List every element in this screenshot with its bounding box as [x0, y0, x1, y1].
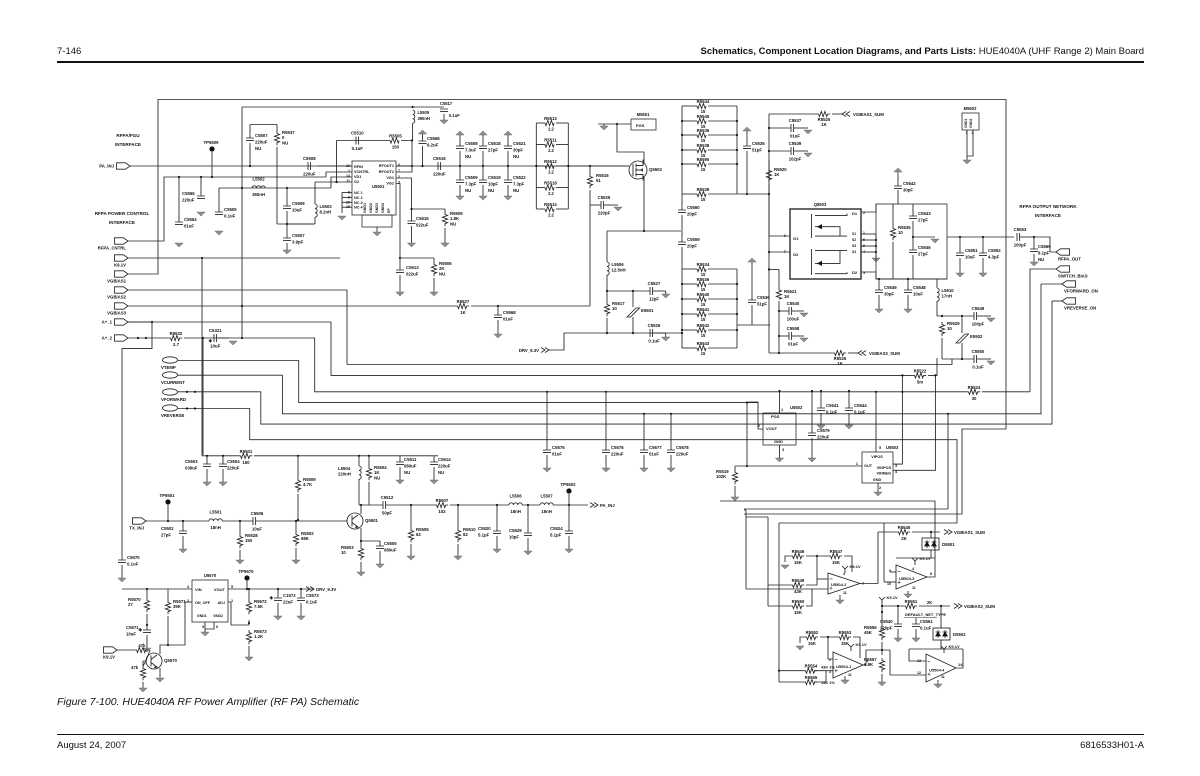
- wire R5505b dn: [410, 544, 412, 556]
- svg-text:39K: 39K: [173, 604, 182, 609]
- wire C5507 top link: [250, 124, 277, 126]
- svg-text:4.7K: 4.7K: [303, 482, 313, 487]
- svg-text:01uF: 01uF: [184, 224, 194, 229]
- wire r5551 in: [882, 605, 903, 607]
- resistor R5505 150: [390, 138, 399, 143]
- junction y177 b: [200, 176, 202, 178]
- svg-text:C5570: C5570: [127, 555, 140, 560]
- wire TX in: [146, 520, 209, 522]
- wire RFOUT2 route: [396, 166, 412, 172]
- wire R5503 dn: [360, 562, 362, 572]
- op-amp U5504-1: [833, 652, 863, 678]
- bundle 509: [744, 508, 948, 510]
- wire C5551 stem: [959, 237, 961, 253]
- junction y177 a: [178, 176, 180, 178]
- resistor R5501 150: [238, 453, 252, 458]
- junction C5569 tap: [1033, 236, 1035, 238]
- capacitor C5571 10uF: [139, 628, 151, 633]
- svg-text:1K: 1K: [774, 172, 780, 177]
- svg-text:VGBIAS1_SUM: VGBIAS1_SUM: [853, 112, 884, 117]
- connector VGBIAS1: [115, 271, 129, 277]
- resistor R5551 2K: [903, 603, 917, 608]
- svg-text:150: 150: [242, 460, 250, 465]
- svg-text:220uF: 220uF: [255, 140, 268, 145]
- resistor R5510 62: [455, 528, 460, 542]
- svg-text:GND1: GND1: [197, 614, 207, 618]
- svg-text:C5321: C5321: [209, 328, 222, 333]
- ground C5554: [175, 243, 183, 247]
- capacitor C5503 039uF: [203, 464, 211, 467]
- junction tp5570: [246, 588, 248, 590]
- wire L5506 feed: [606, 231, 608, 262]
- wire r5574 out: [146, 650, 150, 661]
- svg-text:U5504-4: U5504-4: [929, 667, 945, 672]
- wire C5544 stem: [848, 391, 850, 408]
- resistor R5503 10: [358, 546, 363, 560]
- wire R5518 lead l: [536, 187, 545, 189]
- ground C5527: [662, 294, 670, 298]
- wire d5502 dn: [940, 640, 942, 649]
- wire C5539 lead: [769, 150, 791, 152]
- wire d5501 stem: [930, 532, 932, 538]
- wire C5540 gnd lead: [792, 310, 804, 312]
- wire VGBIAS2 feed: [768, 252, 770, 353]
- ground R5573: [245, 657, 253, 661]
- svg-text:RFPA OUTPUT NETWORK: RFPA OUTPUT NETWORK: [1019, 204, 1077, 209]
- svg-text:220uF: 220uF: [303, 172, 316, 177]
- wire R5544 lead r: [708, 105, 737, 107]
- svg-text:L5510: L5510: [942, 288, 955, 293]
- wire C5550 gnd lead: [977, 358, 991, 360]
- resistor R5504 1K NU: [366, 466, 371, 480]
- wire R5525 out: [832, 113, 842, 115]
- capacitor C5510 0.1uF: [356, 137, 359, 145]
- wire R5521 dn: [778, 301, 780, 353]
- junction rail r5504: [368, 455, 370, 457]
- capacitor C5546 27pF: [909, 250, 917, 253]
- wire C5551 dn: [959, 258, 961, 273]
- svg-text:GND2: GND2: [969, 118, 973, 128]
- power K9.1V e: [941, 646, 947, 653]
- svg-text:GND4: GND4: [381, 203, 385, 213]
- resistor R5511 2.2: [545, 142, 554, 147]
- svg-text:PA_INJ: PA_INJ: [600, 503, 615, 508]
- svg-text:2.2: 2.2: [548, 213, 554, 218]
- wire TP5509 stem: [211, 152, 213, 177]
- svg-text:390nH: 390nH: [418, 116, 430, 121]
- svg-text:R5551: R5551: [905, 599, 918, 604]
- resistor R5570 27: [144, 598, 149, 612]
- svg-text:RFIN: RFIN: [354, 165, 363, 169]
- header rule: [57, 61, 1144, 63]
- power K9.1V d: [848, 644, 854, 651]
- svg-text:C5560: C5560: [687, 205, 700, 210]
- wire M5501 left: [598, 123, 631, 125]
- power K9.1V b: [912, 558, 918, 565]
- svg-text:U5504-3: U5504-3: [899, 576, 915, 581]
- junction S4: [875, 251, 877, 253]
- wire C5578 dn: [670, 455, 672, 468]
- ground C5548: [904, 309, 912, 313]
- svg-text:C5516: C5516: [433, 156, 446, 161]
- svg-text:C5513: C5513: [406, 265, 419, 270]
- svg-text:NC 1: NC 1: [354, 191, 363, 195]
- svg-text:VOUT: VOUT: [766, 426, 778, 431]
- svg-text:L5501: L5501: [210, 510, 223, 515]
- capacitor C5552 4.3pF: [979, 253, 987, 256]
- wire R5507 out: [450, 504, 509, 506]
- wire r5555 in: [779, 681, 803, 683]
- ground R5510: [454, 556, 462, 560]
- capacitor C5540b 220pF: [894, 624, 902, 627]
- svg-text:R5540: R5540: [697, 292, 710, 297]
- svg-text:M5502: M5502: [964, 106, 977, 111]
- wire C5507 top lead: [249, 125, 251, 139]
- wire VG2 route: [396, 184, 400, 259]
- wire C5571 dn: [146, 635, 148, 648]
- wire U5570 gnd1: [204, 622, 206, 632]
- wire r5552-r5553: [820, 636, 837, 638]
- svg-text:12: 12: [917, 671, 921, 675]
- wire R5570 top: [146, 589, 148, 598]
- capacitor C5541 0.1uF: [817, 408, 825, 411]
- svg-text:15K: 15K: [794, 610, 803, 615]
- svg-text:L5505: L5505: [418, 110, 430, 115]
- svg-text:6: 6: [784, 234, 786, 238]
- wire e5502 top row: [937, 315, 974, 317]
- svg-text:C5529: C5529: [509, 528, 522, 533]
- capacitor C5568b 6.2uF: [419, 141, 427, 144]
- wire r5553 out: [853, 637, 860, 658]
- wire C5526 gnd lead: [653, 332, 666, 334]
- wire K9.1V horizontal: [128, 257, 340, 259]
- wire R5505b stem: [410, 505, 412, 528]
- capacitor C5558 01uF: [789, 332, 792, 340]
- wire R5522 out: [928, 358, 937, 375]
- svg-text:NU: NU: [465, 188, 471, 193]
- ground Q5570: [156, 678, 164, 682]
- ground C5576: [602, 468, 610, 472]
- resistor R5522 5m: [912, 373, 926, 378]
- svg-text:43K 1%: 43K 1%: [821, 665, 835, 670]
- svg-text:C5522: C5522: [513, 175, 526, 180]
- svg-text:VFORWARD: VFORWARD: [161, 397, 186, 402]
- transistor Q5503 module: [790, 209, 861, 279]
- capacitor C5559 20pF: [678, 242, 686, 245]
- junction vin tap: [146, 588, 148, 590]
- connector VREVERSE: [163, 405, 178, 411]
- junction r5556 top: [881, 611, 883, 613]
- resistor R5532 2.7: [168, 335, 182, 340]
- resistor R5542 15: [697, 327, 706, 332]
- svg-text:GND1: GND1: [964, 118, 968, 128]
- junction r5528: [239, 520, 241, 522]
- wire C5570 dn: [121, 565, 123, 578]
- svg-text:C5526: C5526: [648, 323, 661, 328]
- wire mid gnd: [913, 236, 935, 238]
- svg-text:15: 15: [701, 167, 706, 172]
- capacitor C5526 0.1uF: [650, 329, 653, 337]
- wire R5570 dn: [146, 614, 148, 625]
- wire stack2 right rail: [736, 269, 738, 348]
- svg-text:2: 2: [829, 658, 831, 662]
- connector VTEMP: [163, 357, 178, 363]
- svg-text:DRV_9.3V: DRV_9.3V: [519, 348, 539, 353]
- wire adj link: [228, 602, 249, 625]
- wire u1 plus: [779, 670, 803, 672]
- svg-text:R5513: R5513: [544, 116, 557, 121]
- wire L5501 out: [222, 520, 253, 522]
- connector TX_INJ: [133, 518, 147, 524]
- wire C5575 dn: [546, 455, 548, 468]
- svg-text:C5512: C5512: [381, 495, 394, 500]
- capacitor C5542 30pF: [894, 186, 902, 189]
- wire C5553 out: [1020, 236, 1034, 238]
- wire A+_1 stub: [128, 321, 152, 323]
- junction C5568 top: [497, 305, 499, 307]
- diode D5502: [933, 628, 950, 640]
- svg-text:R5552: R5552: [806, 630, 819, 635]
- svg-text:220uF: 220uF: [227, 466, 240, 471]
- capacitor C5543 27pF: [909, 216, 917, 219]
- wire L5505 bottom: [412, 123, 414, 140]
- bundle 517: [746, 516, 768, 518]
- svg-text:NU: NU: [465, 154, 471, 159]
- svg-text:10uF: 10uF: [913, 292, 923, 297]
- wire R5539 lead l: [682, 193, 697, 195]
- svg-text:C5504: C5504: [227, 459, 240, 464]
- svg-text:C5542: C5542: [903, 181, 916, 186]
- junction x242 vg3: [241, 305, 243, 307]
- wire C5542 stem dn: [897, 190, 899, 204]
- svg-text:C5535: C5535: [752, 141, 765, 146]
- wire u2 plus: [746, 588, 828, 590]
- svg-text:NU: NU: [1038, 257, 1044, 262]
- svg-text:6.2uF: 6.2uF: [427, 143, 439, 148]
- ground R5502: [292, 560, 300, 564]
- svg-text:220nH: 220nH: [338, 472, 351, 477]
- ground C5522: [504, 196, 512, 200]
- resistor R5573 1.2K: [246, 630, 251, 644]
- svg-text:62: 62: [463, 532, 468, 537]
- svg-text:S2: S2: [852, 238, 856, 242]
- svg-text:GND2: GND2: [213, 614, 223, 618]
- svg-text:C5576: C5576: [611, 445, 624, 450]
- footer part number: [1080, 740, 1144, 751]
- capacitor C5520 5.1pF: [493, 531, 501, 534]
- svg-text:TP5502: TP5502: [560, 482, 576, 487]
- resistor R5554 43K: [803, 668, 817, 673]
- wire C5522 dn: [507, 185, 509, 196]
- svg-text:27: 27: [128, 602, 133, 607]
- svg-text:5m: 5m: [917, 379, 923, 384]
- wire L5506 bot: [606, 275, 608, 291]
- svg-text:0.1uF: 0.1uF: [224, 214, 236, 219]
- svg-text:10pF: 10pF: [509, 535, 519, 540]
- wire R5525 in: [769, 113, 816, 115]
- wire R5572 stem: [248, 589, 250, 600]
- wire SWITCH_BIAS drop: [1030, 269, 1056, 392]
- wire TP5502 stem: [568, 494, 570, 505]
- svg-text:27pF: 27pF: [918, 252, 928, 257]
- svg-text:VG1: VG1: [386, 176, 394, 180]
- wire R5513 lead l: [536, 122, 545, 124]
- junction A+_2 b: [145, 337, 147, 339]
- svg-text:D2: D2: [852, 270, 858, 275]
- wire stack1 right rail: [736, 106, 738, 194]
- svg-text:C5524: C5524: [550, 526, 563, 531]
- header title: [701, 46, 1144, 57]
- svg-text:2.2: 2.2: [548, 127, 554, 132]
- ground R5505b: [407, 556, 415, 560]
- wire R5527 out: [471, 305, 590, 307]
- connector SWITCH_BIAS: [1056, 266, 1070, 272]
- svg-text:4: 4: [912, 567, 914, 571]
- svg-text:NU: NU: [488, 188, 494, 193]
- svg-text:01uF: 01uF: [552, 452, 562, 457]
- svg-text:R5544: R5544: [697, 99, 710, 104]
- junction L5505 top: [412, 106, 414, 108]
- capacitor C5525 220pF: [601, 201, 604, 209]
- wire U5501 gnd stem: [376, 227, 378, 232]
- resistor R5590 15: [697, 161, 706, 166]
- svg-text:360nH: 360nH: [252, 192, 265, 197]
- net VGBIAS2_SUM in: [858, 351, 866, 356]
- svg-text:62: 62: [416, 532, 421, 537]
- wire r5549 out: [806, 579, 817, 585]
- junction RFOUT1: [411, 165, 413, 167]
- junction c5540b: [897, 605, 899, 607]
- resistor R5520 1K: [766, 168, 771, 182]
- wire R5517 bot: [606, 318, 608, 333]
- svg-text:NU: NU: [450, 221, 456, 226]
- wire d5501 dn: [930, 550, 932, 558]
- svg-text:VINPOS: VINPOS: [877, 466, 892, 470]
- wire PA_INJ main line: [130, 165, 352, 167]
- capacitor C5573 0.1uF: [297, 598, 305, 601]
- wire default net underline: [904, 617, 937, 619]
- junction adj node: [248, 622, 250, 624]
- bus A+_1 sense: [128, 322, 912, 375]
- ground C5540b: [894, 638, 902, 642]
- connector VREVERSE_ON: [1062, 298, 1076, 304]
- wire R5541 lead r: [708, 313, 737, 315]
- svg-text:10: 10: [612, 306, 617, 311]
- svg-text:3: 3: [782, 448, 784, 452]
- svg-text:+: +: [139, 628, 142, 633]
- op-amp U5504-2: [828, 573, 860, 594]
- net VGBIAS2_SUM out: [954, 604, 962, 609]
- resistor R5517 10: [604, 302, 609, 316]
- junction stack2 R R5541: [736, 313, 738, 315]
- svg-text:NU: NU: [438, 470, 444, 475]
- wire C5515 gnd lead: [411, 226, 413, 243]
- svg-text:U5504-2: U5504-2: [831, 582, 847, 587]
- svg-text:TX_INJ: TX_INJ: [129, 526, 144, 531]
- wire d5502 stem: [940, 606, 942, 628]
- svg-text:20pF: 20pF: [687, 212, 697, 217]
- wire u3 out: [927, 558, 935, 577]
- wire r5575 top: [143, 661, 146, 666]
- resistor R5506 2K NU: [431, 262, 436, 276]
- capacitor C5578: [667, 450, 675, 453]
- wire C5569 stem: [1033, 237, 1035, 249]
- svg-text:U5503: U5503: [886, 445, 899, 450]
- ground C5539: [804, 153, 812, 157]
- wire R5511 lead r: [556, 144, 568, 146]
- junction rail r5509b: [297, 455, 299, 457]
- wire E5502 dn: [961, 343, 963, 359]
- wire R5514 lead r: [556, 208, 568, 210]
- svg-text:C5520: C5520: [478, 526, 491, 531]
- svg-text:9.1pF: 9.1pF: [1038, 251, 1050, 256]
- svg-text:20pF: 20pF: [687, 244, 697, 249]
- test point TP5501: [165, 499, 170, 504]
- wire E5501 top: [632, 291, 634, 307]
- svg-text:10uF: 10uF: [210, 344, 220, 349]
- svg-text:15K 1%: 15K 1%: [821, 680, 835, 685]
- wire L5506b out: [522, 504, 540, 506]
- svg-text:C5579: C5579: [817, 428, 830, 433]
- ground C5537: [804, 130, 812, 134]
- wire R5526 in: [769, 352, 832, 354]
- svg-text:E5501: E5501: [641, 308, 654, 313]
- wire G1 line: [769, 235, 790, 237]
- transistor Q5570: [146, 653, 162, 669]
- capacitor C5677: [640, 450, 648, 453]
- wire R5571 top: [167, 589, 169, 600]
- wire R5571 dn: [167, 616, 169, 645]
- wire A+ down to rail: [202, 338, 204, 436]
- svg-text:220uF: 220uF: [817, 435, 830, 440]
- wire C5510 line: [337, 140, 391, 142]
- svg-text:VINNEG: VINNEG: [876, 472, 891, 476]
- svg-text:C5525: C5525: [598, 195, 611, 200]
- resistor R5539 15: [697, 191, 706, 196]
- junction VG1 node: [410, 208, 412, 210]
- wire A+_2 line: [128, 337, 168, 339]
- svg-text:D5502: D5502: [953, 632, 966, 637]
- wire L5510 dn: [936, 301, 938, 316]
- wire left branch: [122, 338, 152, 560]
- wire C5502 stem: [182, 521, 184, 531]
- junction stack2 R R5540: [736, 298, 738, 300]
- capacitor C5549 30pF: [875, 290, 883, 293]
- svg-text:RFPA_CNTRL: RFPA_CNTRL: [98, 246, 127, 251]
- wire A+ rail2: [254, 455, 438, 457]
- svg-text:R5514: R5514: [544, 202, 557, 207]
- footer rule: [57, 734, 1144, 735]
- svg-text:GND3: GND3: [375, 203, 379, 213]
- ground C5561: [912, 638, 920, 642]
- resistor R5505b 62: [408, 528, 413, 542]
- ground R5519: [731, 497, 739, 501]
- wire S common: [875, 234, 877, 258]
- junction stack1 R R5538: [736, 149, 738, 151]
- svg-text:220uF: 220uF: [676, 452, 689, 457]
- svg-text:VD1: VD1: [354, 175, 361, 179]
- svg-text:C5677: C5677: [649, 445, 662, 450]
- capacitor C5508c: [456, 146, 464, 149]
- junction L5505 R5505: [411, 139, 413, 141]
- wire VG2 node line: [400, 257, 434, 259]
- wire M5502 pin2: [967, 130, 973, 156]
- svg-text:NU: NU: [513, 154, 519, 159]
- svg-text:L5506: L5506: [510, 494, 523, 499]
- wire R5511 lead l: [536, 144, 545, 146]
- wire R5520 bot: [768, 184, 770, 236]
- svg-text:2.7: 2.7: [173, 342, 180, 347]
